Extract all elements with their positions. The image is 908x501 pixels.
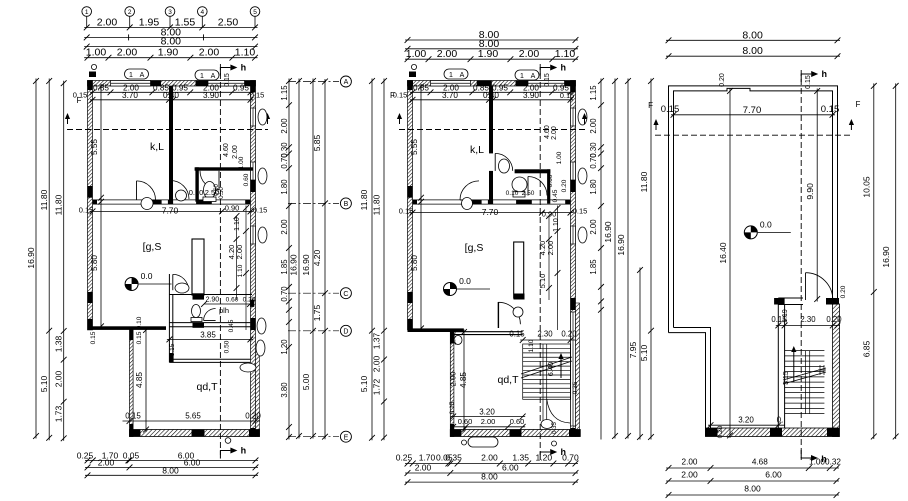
svg-text:16.90: 16.90 xyxy=(603,221,613,243)
svg-text:h: h xyxy=(560,63,566,73)
svg-text:5.00: 5.00 xyxy=(301,373,311,390)
svg-text:0.50: 0.50 xyxy=(224,340,231,353)
svg-text:0.15: 0.15 xyxy=(125,412,141,421)
row bubble D xyxy=(340,325,351,336)
svg-text:16.90: 16.90 xyxy=(26,247,36,269)
middle bottom hatched wall xyxy=(450,430,580,437)
svg-text:0.15: 0.15 xyxy=(661,104,680,115)
svg-text:0.20: 0.20 xyxy=(245,412,261,421)
svg-text:1.90: 1.90 xyxy=(158,47,179,59)
svg-text:6.85: 6.85 xyxy=(862,340,872,357)
door kL bottom 2 xyxy=(171,181,190,200)
svg-text:0.15: 0.15 xyxy=(399,207,414,216)
door bath inner (middle) xyxy=(528,177,547,196)
small circle below left plan wall xyxy=(225,438,231,444)
svg-text:1.73: 1.73 xyxy=(54,405,64,422)
wc upper bath xyxy=(204,182,216,199)
svg-text:4.60: 4.60 xyxy=(544,125,551,139)
svg-text:6.00: 6.00 xyxy=(765,470,782,480)
svg-text:0.15: 0.15 xyxy=(73,91,88,100)
svg-text:k,L: k,L xyxy=(470,144,484,156)
section h (right plan) xyxy=(800,70,802,460)
svg-text:0.10: 0.10 xyxy=(189,188,204,197)
left bottom 8.00 xyxy=(85,465,259,478)
svg-text:1.15: 1.15 xyxy=(589,85,598,101)
svg-text:0.0: 0.0 xyxy=(760,219,772,229)
stair break line (right plan) xyxy=(783,372,826,384)
svg-text:0.20: 0.20 xyxy=(561,179,568,192)
svg-text:8.00: 8.00 xyxy=(162,465,179,475)
svg-text:0.60: 0.60 xyxy=(547,174,554,187)
svg-text:11.80: 11.80 xyxy=(359,189,369,210)
right plan right wall lower hatch xyxy=(833,304,840,437)
svg-text:16.90: 16.90 xyxy=(301,254,311,276)
svg-text:2.00: 2.00 xyxy=(589,118,598,134)
middle wall between hall and qdT xyxy=(454,331,523,333)
svg-text:11.80: 11.80 xyxy=(372,194,382,215)
left 7.70 dim xyxy=(90,206,254,216)
svg-text:5: 5 xyxy=(253,9,257,16)
svg-text:1.10: 1.10 xyxy=(235,47,256,59)
svg-text:h: h xyxy=(821,69,827,79)
door bath upper (left) xyxy=(200,171,219,190)
rad l5 xyxy=(256,340,265,356)
svg-text:1.00: 1.00 xyxy=(556,151,563,164)
svg-text:1.75: 1.75 xyxy=(312,304,322,321)
svg-text:8.00: 8.00 xyxy=(481,471,498,481)
svg-text:5.10: 5.10 xyxy=(359,375,369,392)
svg-text:11.80: 11.80 xyxy=(54,194,64,215)
svg-text:A: A xyxy=(344,79,349,86)
svg-text:C: C xyxy=(343,291,348,298)
middle gS 5.80 xyxy=(410,199,424,331)
left 11.80 5.10 xyxy=(39,78,52,441)
left bottom 2.00 6.00 xyxy=(85,457,259,470)
middle 8.00 row2 xyxy=(405,38,579,52)
svg-text:0.50: 0.50 xyxy=(219,187,225,199)
middle 8.00 row1 xyxy=(405,29,579,43)
right bottom chain xyxy=(666,458,842,471)
rad l1 xyxy=(258,109,267,125)
svg-text:2.00: 2.00 xyxy=(54,370,64,387)
bath block (left plan lower) xyxy=(169,274,252,362)
svg-text:1.20: 1.20 xyxy=(536,453,553,463)
left plan interior wall kL xyxy=(169,86,173,200)
h mark bottom (left plan) xyxy=(220,446,246,459)
right plan stair enclosure xyxy=(778,298,803,437)
svg-text:3.70: 3.70 xyxy=(442,91,458,100)
window tag m2 xyxy=(515,70,539,80)
svg-text:0.40: 0.40 xyxy=(163,91,179,100)
rad m2 xyxy=(578,168,587,184)
middle 7.70 dim xyxy=(410,207,574,217)
svg-text:9.90: 9.90 xyxy=(805,183,815,200)
svg-text:2.00: 2.00 xyxy=(437,48,458,60)
svg-text:1.90: 1.90 xyxy=(478,48,499,60)
svg-text:2.00: 2.00 xyxy=(481,453,498,463)
rightplan-left 11.80 5.10 xyxy=(639,78,654,440)
svg-text:5.55: 5.55 xyxy=(410,139,419,155)
middle 0.60 2.00 0.60 xyxy=(450,417,525,430)
middle top chain xyxy=(405,48,579,62)
svg-text:2.00: 2.00 xyxy=(682,458,698,467)
svg-text:3.80: 3.80 xyxy=(280,382,289,398)
door gS to stair hall (middle) xyxy=(498,302,520,324)
svg-text:5.10: 5.10 xyxy=(639,344,649,361)
svg-text:k,L: k,L xyxy=(150,141,164,153)
rightplan 10.05 6.85 xyxy=(862,83,877,439)
h bottom (middle) xyxy=(540,447,566,460)
svg-text:16.90: 16.90 xyxy=(616,234,626,256)
left 11.80 1.38 2.00 1.73 xyxy=(54,80,67,441)
svg-text:7.95: 7.95 xyxy=(628,341,638,358)
svg-text:0.40: 0.40 xyxy=(483,91,499,100)
middle chimney duct xyxy=(514,242,524,298)
svg-text:5.65: 5.65 xyxy=(185,412,201,421)
svg-text:2.90: 2.90 xyxy=(206,297,220,304)
stair break line (middle) xyxy=(521,361,572,378)
svg-text:0.90: 0.90 xyxy=(225,204,240,213)
svg-text:0.15: 0.15 xyxy=(573,207,588,216)
svg-text:0.20: 0.20 xyxy=(826,315,842,324)
handrail mark (right plan) xyxy=(818,365,826,375)
right bottom 2.00 6.00 xyxy=(666,470,840,484)
svg-text:E: E xyxy=(344,434,349,441)
svg-text:2: 2 xyxy=(128,9,132,16)
left bottom chain xyxy=(77,450,259,463)
svg-text:1.10: 1.10 xyxy=(237,264,244,277)
middle plan left wall xyxy=(408,81,413,330)
right 8.00 row1 xyxy=(666,29,841,43)
svg-text:2.00: 2.00 xyxy=(280,219,289,235)
svg-text:1: 1 xyxy=(200,73,204,80)
svg-text:D: D xyxy=(343,328,348,335)
svg-text:0.15: 0.15 xyxy=(90,331,97,344)
svg-text:7.70: 7.70 xyxy=(482,207,499,217)
window tag m1 xyxy=(444,69,468,79)
svg-text:1.72: 1.72 xyxy=(372,378,382,395)
svg-text:0.15: 0.15 xyxy=(821,104,840,115)
svg-text:qd,T: qd,T xyxy=(196,381,218,393)
svg-text:1.80: 1.80 xyxy=(280,179,289,195)
svg-text:10.05: 10.05 xyxy=(862,176,872,198)
svg-text:1.60: 1.60 xyxy=(449,331,458,346)
svg-text:F: F xyxy=(390,91,395,100)
svg-text:2.00: 2.00 xyxy=(280,118,289,134)
svg-text:1.80: 1.80 xyxy=(589,179,598,195)
svg-text:2.50: 2.50 xyxy=(218,16,239,28)
svg-text:16.90: 16.90 xyxy=(289,254,299,276)
mid-right 16.90 b xyxy=(616,78,631,439)
h top (right) xyxy=(801,69,827,82)
row bubbles A-E xyxy=(288,81,339,83)
left window chain dim xyxy=(90,83,254,95)
svg-text:8.00: 8.00 xyxy=(744,484,761,494)
level 0.0 (middle plan) xyxy=(444,276,491,296)
svg-text:2.00: 2.00 xyxy=(551,126,558,140)
rightplan 16.90 xyxy=(881,83,899,439)
svg-text:1.95: 1.95 xyxy=(139,16,160,28)
left plan top wall xyxy=(88,81,256,87)
svg-text:0.95: 0.95 xyxy=(233,83,249,92)
svg-text:2.00: 2.00 xyxy=(98,457,115,467)
svg-text:6.00: 6.00 xyxy=(184,457,201,467)
svg-text:0.15: 0.15 xyxy=(449,401,456,414)
svg-text:0.15: 0.15 xyxy=(544,73,551,87)
kL height 5.55 xyxy=(90,84,104,201)
right 7.70 dim xyxy=(671,105,836,118)
svg-text:2.50: 2.50 xyxy=(522,190,535,197)
row bubble C xyxy=(340,288,351,299)
svg-text:[g,S: [g,S xyxy=(465,242,484,254)
stairs (middle plan) xyxy=(523,344,571,427)
svg-text:plh: plh xyxy=(219,306,229,315)
svg-text:A: A xyxy=(531,73,536,80)
svg-text:2.00: 2.00 xyxy=(117,47,138,59)
svg-text:0.0: 0.0 xyxy=(459,276,471,286)
right plan bottom hatched wall xyxy=(706,428,840,437)
right 9.90 xyxy=(805,88,820,302)
door bottom wall (middle) xyxy=(460,181,479,200)
svg-text:0.20: 0.20 xyxy=(719,73,726,87)
svg-text:0.15: 0.15 xyxy=(250,91,265,100)
middle stair top dim xyxy=(509,330,577,343)
svg-text:3.20: 3.20 xyxy=(738,416,754,425)
bottom oval tag xyxy=(468,437,498,447)
svg-text:3.90: 3.90 xyxy=(523,91,539,100)
svg-text:5.80: 5.80 xyxy=(410,255,419,271)
svg-text:A: A xyxy=(460,72,465,79)
middle rooms width dim xyxy=(410,91,574,103)
circle in stair hall door (middle) xyxy=(513,307,523,317)
svg-text:2.00: 2.00 xyxy=(97,16,118,28)
svg-text:1.10: 1.10 xyxy=(234,217,241,231)
wc bath (middle) xyxy=(512,177,527,192)
right bottom 8.00 xyxy=(666,484,840,498)
fixture circle door1 xyxy=(141,198,153,210)
rad l2 xyxy=(258,168,267,184)
svg-text:6.00: 6.00 xyxy=(502,462,519,472)
svg-text:0.45: 0.45 xyxy=(228,319,235,332)
svg-text:2.00: 2.00 xyxy=(415,462,432,472)
svg-text:1.00: 1.00 xyxy=(86,47,107,59)
door kL mid (middle) xyxy=(495,153,513,171)
svg-text:0.15: 0.15 xyxy=(224,73,231,87)
svg-text:0.20: 0.20 xyxy=(243,297,256,304)
svg-text:0.35: 0.35 xyxy=(552,422,558,434)
svg-text:1.00: 1.00 xyxy=(809,458,825,467)
sink near kL door (middle) xyxy=(499,159,510,173)
svg-text:11.80: 11.80 xyxy=(39,189,49,210)
svg-text:1: 1 xyxy=(520,73,524,80)
svg-text:1.15: 1.15 xyxy=(280,85,289,101)
section F (right plan) xyxy=(655,134,852,136)
rad l4 xyxy=(257,318,266,334)
h bottom (right) xyxy=(801,450,811,458)
middle qdT 4.85 xyxy=(459,329,468,432)
row bubble B xyxy=(340,198,351,209)
middle plan step wall xyxy=(408,328,464,332)
door kL bottom 1 xyxy=(137,181,156,200)
left 8.00 row2 xyxy=(84,36,258,50)
svg-text:4.60: 4.60 xyxy=(223,143,230,157)
svg-text:3.20: 3.20 xyxy=(479,408,495,417)
svg-text:0.15: 0.15 xyxy=(136,331,143,344)
svg-text:2.00: 2.00 xyxy=(589,219,598,235)
grid spacing chain xyxy=(84,16,258,30)
svg-text:2.00: 2.00 xyxy=(372,355,382,372)
svg-text:h: h xyxy=(241,63,247,73)
svg-text:1.00: 1.00 xyxy=(238,156,245,169)
middle wall below kL xyxy=(413,200,571,204)
svg-text:5.55: 5.55 xyxy=(90,139,99,155)
svg-text:1.37: 1.37 xyxy=(372,332,382,349)
svg-text:0.20: 0.20 xyxy=(840,285,847,298)
svg-text:0.15: 0.15 xyxy=(79,206,94,215)
svg-text:2.00: 2.00 xyxy=(546,241,555,256)
mid-left 11.80 chain xyxy=(372,78,387,440)
right 3.20 dim xyxy=(708,416,785,429)
svg-text:0.0: 0.0 xyxy=(141,271,153,281)
middle interior wall kL with door gap xyxy=(489,86,493,153)
level 0.0 (left plan) xyxy=(125,271,172,291)
right 5.85 4.20 1.75 xyxy=(312,79,328,440)
svg-text:8.00: 8.00 xyxy=(742,45,763,57)
left plan wall below kL xyxy=(93,200,251,204)
right 16.90 b xyxy=(301,78,316,439)
left 8.00 row1 xyxy=(84,26,258,40)
svg-text:1.85: 1.85 xyxy=(589,259,598,275)
left plan bottom hatched wall xyxy=(130,430,260,437)
svg-text:1.00: 1.00 xyxy=(406,48,427,60)
svg-text:2.00: 2.00 xyxy=(449,372,458,387)
middle bathroom walls upper right xyxy=(515,169,551,203)
svg-text:4: 4 xyxy=(200,9,204,16)
svg-text:3.85: 3.85 xyxy=(200,330,216,339)
dim 3.85 bath xyxy=(167,330,254,342)
svg-text:8.00: 8.00 xyxy=(742,29,763,41)
gS height 5.80 xyxy=(90,199,104,329)
left plan right wall xyxy=(251,81,256,437)
svg-text:0.70: 0.70 xyxy=(562,453,579,463)
svg-text:5.85: 5.85 xyxy=(312,134,322,151)
far left 16.90 xyxy=(26,78,39,439)
svg-text:0.15: 0.15 xyxy=(169,343,176,356)
svg-text:5.80: 5.80 xyxy=(90,255,99,271)
svg-text:0.32: 0.32 xyxy=(825,458,841,467)
svg-text:0.25: 0.25 xyxy=(396,453,413,463)
svg-text:3: 3 xyxy=(168,9,172,16)
svg-text:2.00: 2.00 xyxy=(681,470,698,480)
level 0.0 (right plan) xyxy=(744,219,791,239)
middle kL 5.55 xyxy=(410,84,424,201)
svg-text:2.00: 2.00 xyxy=(481,417,496,426)
right chain detail xyxy=(280,78,292,440)
door stairs top (right plan) xyxy=(806,273,833,300)
svg-text:1.35: 1.35 xyxy=(512,453,529,463)
section line F-F (left plan) xyxy=(67,129,268,131)
rad m1 xyxy=(578,109,587,125)
svg-text:A: A xyxy=(140,72,145,79)
svg-text:0.70: 0.70 xyxy=(589,153,598,169)
middle bottom 2.00 6.00 xyxy=(405,462,579,476)
door gS to hall xyxy=(173,274,189,290)
svg-text:2.30: 2.30 xyxy=(800,315,816,324)
right 0.15 2.30 0.20 xyxy=(771,315,842,328)
right plan outer walls xyxy=(669,86,838,437)
section line h (middle plan) xyxy=(539,64,541,455)
svg-text:0.15: 0.15 xyxy=(805,75,812,89)
section line F (middle plan) xyxy=(399,129,585,131)
right 8.00 row2 xyxy=(666,45,841,59)
window tag 1 xyxy=(125,69,149,79)
svg-text:2.00: 2.00 xyxy=(519,48,540,60)
qdT height 4.85 xyxy=(135,327,149,432)
svg-text:4.85: 4.85 xyxy=(459,372,468,388)
svg-text:A: A xyxy=(211,73,216,80)
svg-text:2.00: 2.00 xyxy=(199,47,220,59)
row bubble A xyxy=(340,76,351,87)
svg-text:0.15: 0.15 xyxy=(560,91,575,100)
svg-text:1.20: 1.20 xyxy=(280,339,289,355)
svg-text:0.15: 0.15 xyxy=(771,315,787,324)
stairs (right plan) xyxy=(785,351,825,414)
h mark top (left plan) xyxy=(220,63,246,76)
right 16.90 a xyxy=(289,78,302,439)
svg-text:qd,T: qd,T xyxy=(497,374,519,386)
svg-text:4.85: 4.85 xyxy=(135,372,144,388)
chimney above top wall xyxy=(89,72,96,78)
svg-text:3.90: 3.90 xyxy=(203,91,219,100)
rad l3 xyxy=(258,227,267,243)
svg-text:F: F xyxy=(856,100,861,109)
svg-text:1.38: 1.38 xyxy=(54,335,64,352)
fixture circle door2 xyxy=(176,190,187,201)
svg-text:1.10: 1.10 xyxy=(528,339,535,352)
svg-text:16.40: 16.40 xyxy=(718,242,728,264)
middle plan top wall xyxy=(408,81,576,87)
section line h (left plan) xyxy=(219,64,221,455)
svg-text:0.45: 0.45 xyxy=(552,189,559,202)
left plan right wall lower hatch strip xyxy=(256,352,260,437)
svg-text:[g,S: [g,S xyxy=(143,241,162,253)
mid-left 11.80 5.10 xyxy=(359,78,375,441)
svg-text:0.35: 0.35 xyxy=(572,381,579,394)
left rooms width dim xyxy=(90,91,254,103)
svg-text:0.10: 0.10 xyxy=(506,190,519,197)
sink hall xyxy=(175,283,189,293)
svg-text:16.90: 16.90 xyxy=(881,246,891,268)
svg-text:1: 1 xyxy=(449,72,453,79)
svg-text:1.70: 1.70 xyxy=(419,453,436,463)
middle plan qdT left wall xyxy=(450,332,454,437)
middle 3.20 dim xyxy=(450,408,525,420)
svg-text:h: h xyxy=(241,446,247,456)
window tag 2 xyxy=(195,70,219,80)
svg-text:4.68: 4.68 xyxy=(752,458,768,467)
svg-text:0.20: 0.20 xyxy=(561,330,577,339)
middle window chain dim xyxy=(410,83,574,95)
wc lower xyxy=(192,305,201,318)
left plan chimney duct xyxy=(192,239,204,295)
fixture oval below step (middle) xyxy=(454,336,462,345)
svg-text:0.60: 0.60 xyxy=(510,417,525,426)
door toilet room xyxy=(204,309,216,321)
svg-text:1: 1 xyxy=(129,72,133,79)
svg-text:5.10: 5.10 xyxy=(538,274,547,289)
left plan left wall xyxy=(88,81,93,330)
middle bottom chain xyxy=(396,453,579,467)
